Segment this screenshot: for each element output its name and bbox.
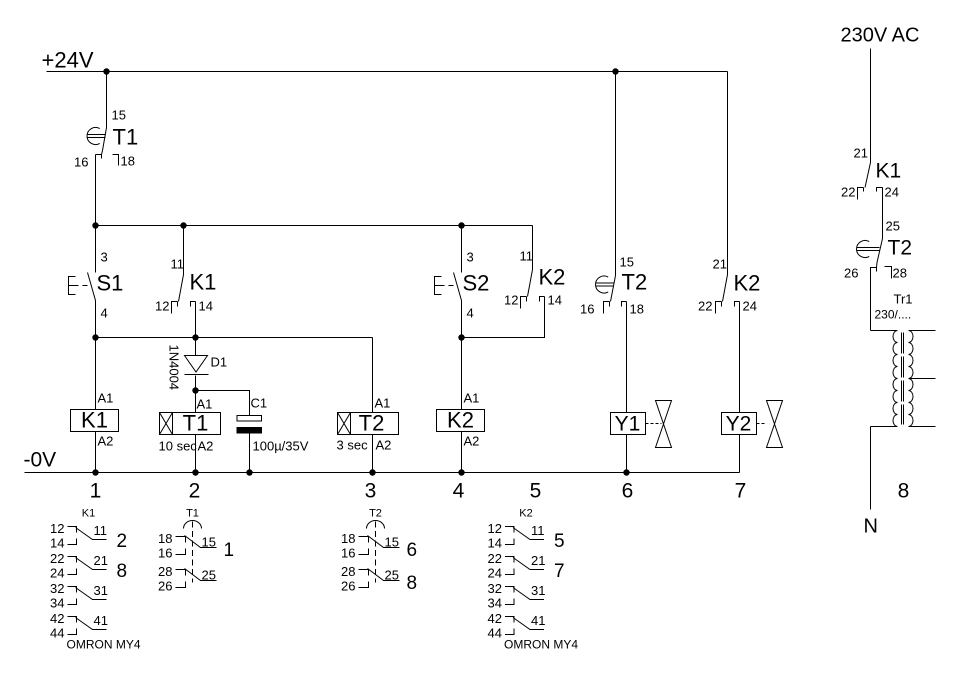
table timer T2 contacts xyxy=(341,508,417,595)
svg-text:42: 42 xyxy=(488,611,502,626)
svg-text:10 sec: 10 sec xyxy=(159,439,198,454)
solenoid coil Y1 xyxy=(611,413,646,473)
timer coil T2 3 sec A1-A2 xyxy=(337,338,399,473)
svg-text:A2: A2 xyxy=(464,434,480,449)
svg-text:21: 21 xyxy=(713,257,727,272)
svg-text:4: 4 xyxy=(101,306,108,321)
junction 0V/Y1 xyxy=(623,469,629,475)
wire D1 node to C1 xyxy=(196,391,250,416)
svg-text:41: 41 xyxy=(94,613,108,628)
svg-text:16: 16 xyxy=(158,546,172,561)
timer contact T1 pins 15-16-18 xyxy=(74,72,138,226)
svg-text:21: 21 xyxy=(531,553,545,568)
svg-text:T1: T1 xyxy=(113,125,139,150)
svg-text:26: 26 xyxy=(341,579,355,594)
svg-text:S2: S2 xyxy=(463,271,490,296)
svg-text:K1: K1 xyxy=(82,508,95,520)
svg-text:A2: A2 xyxy=(376,438,392,453)
svg-text:T2: T2 xyxy=(369,508,382,520)
svg-text:T2: T2 xyxy=(359,411,385,436)
svg-text:16: 16 xyxy=(341,546,355,561)
wire node rail A xyxy=(96,337,373,339)
svg-text:3: 3 xyxy=(467,250,474,265)
table relay K1 contacts OMRON MY4 xyxy=(50,508,141,652)
svg-text:14: 14 xyxy=(199,299,213,314)
svg-text:OMRON MY4: OMRON MY4 xyxy=(67,638,141,652)
svg-text:4: 4 xyxy=(453,480,465,503)
svg-text:44: 44 xyxy=(50,626,64,641)
junction 0V/K2 coil xyxy=(458,469,464,475)
svg-text:24: 24 xyxy=(743,299,757,314)
svg-text:18: 18 xyxy=(341,531,355,546)
svg-text:31: 31 xyxy=(531,583,545,598)
table timer T1 contacts xyxy=(158,508,234,594)
svg-text:24: 24 xyxy=(488,566,502,581)
svg-text:32: 32 xyxy=(50,581,64,596)
svg-text:28: 28 xyxy=(341,564,355,579)
svg-text:31: 31 xyxy=(94,583,108,598)
svg-text:32: 32 xyxy=(488,581,502,596)
svg-text:N: N xyxy=(864,516,878,538)
solenoid coil Y2 xyxy=(722,413,757,473)
wire to N xyxy=(870,427,872,510)
pushbutton S2 pins 3-4 xyxy=(435,226,490,338)
svg-text:15: 15 xyxy=(112,108,126,123)
svg-text:16: 16 xyxy=(74,155,88,170)
svg-text:K2: K2 xyxy=(734,271,761,296)
svg-text:12: 12 xyxy=(488,521,502,536)
svg-text:A1: A1 xyxy=(375,396,391,411)
svg-text:28: 28 xyxy=(893,266,907,281)
svg-text:26: 26 xyxy=(844,266,858,281)
junction D1/T1-coil/C1 xyxy=(192,387,198,393)
pushbutton S1 pins 3-4 xyxy=(69,226,124,338)
svg-text:44: 44 xyxy=(488,626,502,641)
svg-text:8: 8 xyxy=(407,573,418,594)
svg-text:4: 4 xyxy=(467,306,474,321)
svg-text:11: 11 xyxy=(94,523,108,538)
svg-text:1: 1 xyxy=(224,540,235,561)
svg-text:22: 22 xyxy=(698,299,712,314)
relay coil K1 A1-A2 xyxy=(71,338,119,473)
svg-text:3: 3 xyxy=(101,250,108,265)
svg-text:100µ/35V: 100µ/35V xyxy=(253,439,309,454)
svg-text:K1: K1 xyxy=(81,408,108,433)
svg-text:21: 21 xyxy=(94,553,108,568)
valve symbol Y1 xyxy=(646,401,672,448)
svg-text:S1: S1 xyxy=(97,271,124,296)
svg-text:5: 5 xyxy=(530,480,542,503)
svg-text:12: 12 xyxy=(504,293,518,308)
svg-text:12: 12 xyxy=(50,521,64,536)
svg-text:T2: T2 xyxy=(622,270,648,295)
svg-text:K2: K2 xyxy=(447,408,474,433)
relay coil K2 A1-A2 xyxy=(437,338,485,473)
svg-text:25: 25 xyxy=(385,568,399,583)
junction 0V/T2 coil xyxy=(369,469,375,475)
svg-text:42: 42 xyxy=(50,611,64,626)
svg-text:230/....: 230/.... xyxy=(875,308,912,322)
svg-text:T1: T1 xyxy=(183,411,209,436)
svg-text:Y2: Y2 xyxy=(726,413,752,436)
svg-text:2: 2 xyxy=(117,531,128,552)
svg-text:25: 25 xyxy=(886,219,900,234)
wire latch rail xyxy=(96,225,533,227)
svg-text:8: 8 xyxy=(117,561,128,582)
svg-text:11: 11 xyxy=(171,257,185,272)
svg-text:K2: K2 xyxy=(519,508,532,520)
svg-text:D1: D1 xyxy=(211,355,228,370)
svg-text:34: 34 xyxy=(50,596,64,611)
wire +24V rail xyxy=(47,71,728,73)
junction 0V/T1 coil xyxy=(192,469,198,475)
capacitor C1 100u/35V xyxy=(237,396,309,473)
svg-text:230V AC: 230V AC xyxy=(841,25,920,47)
svg-text:41: 41 xyxy=(531,613,545,628)
svg-text:22: 22 xyxy=(841,185,855,200)
svg-text:34: 34 xyxy=(488,596,502,611)
svg-text:24: 24 xyxy=(50,566,64,581)
relay contact K2 pins 11-12-14 xyxy=(462,226,566,338)
timer coil T1 10 sec A1-A2 xyxy=(159,391,221,473)
svg-text:K1: K1 xyxy=(190,270,217,295)
svg-text:14: 14 xyxy=(50,536,64,551)
svg-text:2: 2 xyxy=(189,480,201,503)
svg-text:1N4004: 1N4004 xyxy=(167,345,182,391)
svg-text:A1: A1 xyxy=(197,397,213,412)
svg-text:3: 3 xyxy=(365,480,377,503)
wire 0V rail xyxy=(25,472,740,474)
svg-text:8: 8 xyxy=(898,480,910,503)
junction rail2/S2 xyxy=(458,222,464,228)
svg-text:18: 18 xyxy=(158,531,172,546)
wire 230V feed xyxy=(870,49,872,163)
svg-text:22: 22 xyxy=(50,551,64,566)
svg-text:-0V: -0V xyxy=(24,449,57,472)
svg-text:Tr1: Tr1 xyxy=(894,292,913,307)
svg-text:K2: K2 xyxy=(539,265,566,290)
junction S2/K2-coil xyxy=(458,334,464,340)
junction 0V/C1 xyxy=(246,469,252,475)
svg-text:15: 15 xyxy=(620,255,634,270)
svg-text:14: 14 xyxy=(488,536,502,551)
svg-text:21: 21 xyxy=(854,146,868,161)
svg-text:12: 12 xyxy=(155,299,169,314)
junction rail2/S1 xyxy=(92,222,98,228)
svg-text:24: 24 xyxy=(885,185,899,200)
svg-text:14: 14 xyxy=(548,293,562,308)
svg-text:K1: K1 xyxy=(876,160,902,183)
svg-text:A1: A1 xyxy=(98,391,114,406)
junction K1-14/D1 xyxy=(192,334,198,340)
table relay K2 contacts OMRON MY4 xyxy=(488,508,579,652)
svg-text:6: 6 xyxy=(622,480,634,503)
svg-text:+24V: +24V xyxy=(42,48,94,73)
svg-text:18: 18 xyxy=(630,302,644,317)
svg-text:28: 28 xyxy=(158,564,172,579)
timer contact T2 pins 25-26-28 xyxy=(844,219,912,331)
svg-text:OMRON MY4: OMRON MY4 xyxy=(504,638,578,652)
svg-text:6: 6 xyxy=(407,540,418,561)
relay contact K2 pins 21-22-24 xyxy=(698,72,760,413)
svg-text:15: 15 xyxy=(202,535,216,550)
junction rail/T1 xyxy=(103,68,109,74)
relay contact K1 pins 11-12-14 xyxy=(155,226,216,338)
svg-text:5: 5 xyxy=(554,531,565,552)
junction S1/K1-coil xyxy=(92,334,98,340)
svg-text:26: 26 xyxy=(158,579,172,594)
svg-text:11: 11 xyxy=(531,523,545,538)
svg-text:T2: T2 xyxy=(888,237,913,260)
svg-text:25: 25 xyxy=(202,568,216,583)
junction rail/T2 Y1-branch xyxy=(612,68,618,74)
svg-text:7: 7 xyxy=(735,480,747,503)
relay contact K1 pins 21-22-24 xyxy=(841,146,901,239)
svg-text:3 sec: 3 sec xyxy=(337,438,369,453)
svg-text:A2: A2 xyxy=(98,434,114,449)
junction rail2/K1 contact xyxy=(180,222,186,228)
svg-text:Y1: Y1 xyxy=(615,413,641,436)
svg-text:22: 22 xyxy=(488,551,502,566)
svg-text:18: 18 xyxy=(121,154,135,169)
svg-text:T1: T1 xyxy=(186,508,199,520)
junction 0V/K1 coil xyxy=(92,469,98,475)
svg-text:A1: A1 xyxy=(464,391,480,406)
svg-text:15: 15 xyxy=(385,535,399,550)
svg-text:1: 1 xyxy=(90,480,102,503)
diode D1 1N4004 xyxy=(167,338,228,391)
timer contact T2 pins 15-16-18 xyxy=(580,72,647,413)
svg-text:11: 11 xyxy=(520,249,534,264)
svg-text:7: 7 xyxy=(554,561,565,582)
svg-text:A2: A2 xyxy=(198,439,214,454)
valve symbol Y2 xyxy=(757,401,783,448)
transformer Tr1 230/.... xyxy=(871,292,936,427)
svg-text:C1: C1 xyxy=(251,396,268,411)
svg-text:16: 16 xyxy=(580,302,594,317)
